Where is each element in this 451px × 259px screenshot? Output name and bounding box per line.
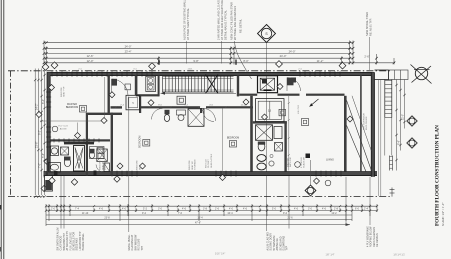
washer dryer closet left of stair: [146, 76, 156, 91]
svg-text:RE: DETAIL: RE: DETAIL: [239, 19, 243, 33]
living room door dark mark: [306, 154, 311, 159]
top dimension section marks: [158, 60, 160, 65]
bedroom3 closet door arc: [203, 111, 214, 122]
svg-text:2 HR RATED WALL AND CLG ASSY: 2 HR RATED WALL AND CLG ASSY: [217, 0, 221, 40]
door arc bedroom2 entry: [112, 79, 129, 96]
property line left vertical (dash-dot): [10, 71, 12, 197]
chimney projection bottom-left: [45, 176, 53, 192]
bath top dark band: [64, 142, 94, 145]
corridor dim ticks: [115, 106, 117, 108]
living room pointer arrow: [310, 99, 319, 107]
left grid diamond top: [42, 64, 49, 71]
svg-text:47'-8": 47'-8": [195, 222, 201, 225]
laundry room outline: [256, 99, 285, 122]
bottom dimension vertical ticks: [45, 204, 47, 226]
bedroom1 circle tag: [52, 126, 58, 132]
svg-text:STORAGE: STORAGE: [194, 159, 197, 170]
interior wall left bath (vertical): [86, 113, 88, 176]
svg-text:LIVING: LIVING: [326, 159, 334, 162]
leader to note3b: [288, 176, 290, 229]
svg-text:W/ STEEL RAIL RE DETAILS: W/ STEEL RAIL RE DETAILS: [233, 6, 237, 40]
left dimension lines: [34, 69, 36, 196]
svg-text:RE DETAILS: RE DETAILS: [376, 233, 379, 247]
exterior wall left: [47, 72, 50, 175]
ladder extension verticals: [384, 118, 386, 156]
bedroom1 south wall mullion ticks: [53, 138, 55, 142]
hall bath sink: [177, 110, 186, 115]
mid bath shower: [256, 125, 273, 141]
right strip inner wall: [360, 76, 362, 172]
sheet border left double line: [0, 0, 2, 259]
svg-text:2'-0: 2'-0: [51, 208, 56, 211]
bottom dimension lines: [46, 205, 377, 207]
right strip diagonal stair lines: [347, 101, 372, 171]
bedroom1 diamond mid: [75, 133, 81, 139]
svg-text:WINDOW: WINDOW: [137, 159, 139, 170]
hall bath upper wall band: [111, 106, 123, 108]
svg-text:10'-4: 10'-4: [227, 212, 233, 215]
svg-text:7'-4: 7'-4: [75, 208, 80, 211]
svg-text:NEW CONC FILLED PAN STAIR: NEW CONC FILLED PAN STAIR: [230, 2, 234, 40]
stair break X: [206, 75, 219, 94]
leader note E: [369, 37, 371, 70]
grid bubble bottom (diamond circle): [305, 185, 316, 196]
interior wall bedroom3 right / bath left (vertical): [250, 96, 253, 172]
svg-text:9'-2": 9'-2": [39, 130, 42, 135]
interior wall WIC right (vertical): [139, 95, 141, 113]
svg-text:5'-8": 5'-8": [42, 153, 45, 158]
property line bottom (dash-dot): [8, 196, 392, 198]
svg-text:9'-8": 9'-8": [193, 59, 198, 63]
laundry divider: [269, 101, 271, 119]
stair direction line with arrow: [161, 92, 237, 94]
tub with V: [74, 146, 85, 172]
interior leader x222: [222, 108, 224, 174]
north arrow (crossed circle): [415, 67, 427, 79]
leader x346 below building: [345, 177, 347, 225]
svg-text:GLASS DR: GLASS DR: [303, 157, 306, 168]
hall bath toilet: [165, 110, 170, 115]
leader note A: [186, 41, 188, 64]
tag diamond below chimney: [49, 177, 55, 183]
svg-text:BEDROOM: BEDROOM: [227, 137, 239, 140]
mid bath counter: [274, 127, 282, 139]
bedroom2 tag box: [143, 140, 150, 147]
interior wall bedroom1 right (vertical): [108, 76, 110, 114]
svg-text:5'-0: 5'-0: [272, 208, 277, 211]
living room right wall (vertical): [344, 96, 347, 172]
small box with X: [61, 147, 69, 155]
diamond near WIC: [109, 92, 115, 98]
svg-text:4'-6: 4'-6: [294, 208, 299, 211]
leader note C curve: [235, 41, 252, 79]
top wall window mullion ticks: [51, 71, 53, 76]
svg-text:BEDROOM: BEDROOM: [139, 136, 142, 148]
stair run hatch: [163, 75, 234, 77]
svg-text:4'-6: 4'-6: [322, 208, 327, 211]
leader bottom bubble: [310, 160, 312, 185]
top dimension intermediate ticks: [158, 57, 160, 65]
deck edge lines right of exterior wall: [377, 80, 379, 196]
svg-text:HARDIE PANEL: HARDIE PANEL: [82, 232, 85, 250]
bedroom1 south wall with glazing: [50, 139, 110, 141]
grid bubble S1 (diamond with circle): [258, 25, 276, 43]
interior wall bath left top area (vertical): [135, 76, 138, 96]
svg-text:7'-6: 7'-6: [178, 212, 183, 215]
svg-text:5'-2: 5'-2: [143, 208, 148, 211]
top-right vestibule walls: [375, 69, 389, 71]
svg-text:4'-0: 4'-0: [229, 208, 234, 211]
svg-text:ENCLOSURE: ENCLOSURE: [366, 116, 368, 130]
toilet bottom-left: [64, 158, 70, 166]
left bath door arc: [96, 165, 106, 174]
svg-text:23'-4": 23'-4": [125, 49, 132, 53]
hall bath door arc left: [152, 108, 163, 119]
tag diamond below wall x117: [114, 176, 120, 182]
svg-text:15'-4: 15'-4: [197, 217, 203, 220]
svg-text:SHELF+POLE: SHELF+POLE: [211, 153, 213, 168]
svg-text:4'-0: 4'-0: [122, 208, 127, 211]
bedroom1 window leader vertical: [104, 77, 106, 118]
leader to note4: [369, 177, 371, 225]
svg-text:21'-6: 21'-6: [287, 217, 293, 220]
svg-text:11'-0": 11'-0": [401, 114, 404, 120]
svg-text:6'-4": 6'-4": [42, 99, 45, 104]
svg-text:9'-2: 9'-2: [142, 212, 147, 215]
svg-text:8'-0": 8'-0": [243, 59, 248, 63]
exterior wall right: [371, 72, 374, 177]
svg-text:RE: A5.01 TYP.: RE: A5.01 TYP.: [369, 18, 373, 36]
svg-text:WINDOW: WINDOW: [100, 159, 102, 170]
WC fixtures top middle: [112, 79, 118, 86]
corridor door arc right: [287, 78, 301, 92]
right strip grid diamond: [347, 116, 353, 122]
top grid diamonds: [51, 62, 58, 69]
wall bedroom3 top: [200, 108, 202, 113]
svg-text:SEAT TYP.: SEAT TYP.: [63, 86, 66, 97]
grid bubble S1 leader (long vertical): [266, 43, 268, 232]
elevator shaft: [258, 76, 278, 93]
svg-text:2'-6": 2'-6": [364, 55, 369, 59]
exterior stair ladder right edge: [384, 80, 386, 118]
hall bath shower: [188, 109, 204, 127]
closet shelves boxes: [90, 147, 105, 159]
svg-text:TYP: TYP: [286, 245, 289, 250]
WIC closet box: [126, 95, 140, 110]
exterior wall bottom: [44, 172, 378, 176]
svg-text:12'-0": 12'-0": [87, 59, 94, 63]
svg-text:3'-0: 3'-0: [308, 208, 313, 211]
svg-text:4'-6: 4'-6: [243, 208, 248, 211]
bedroom1 wall tag diamond: [49, 85, 55, 91]
svg-text:SEAT W/: SEAT W/: [191, 161, 194, 170]
exterior wall top: [47, 72, 374, 75]
svg-text:2'-4: 2'-4: [364, 208, 369, 211]
kitchen tag box: [279, 109, 286, 116]
svg-text:6'-0: 6'-0: [355, 208, 360, 211]
corridor top wall segments right of stair: [239, 94, 257, 96]
svg-text:ALIGN: ALIGN: [60, 127, 67, 130]
svg-text:9'-0" CLG: 9'-0" CLG: [58, 126, 68, 128]
bedroom1 tag box: [80, 106, 87, 113]
leader to note1: [60, 176, 62, 229]
svg-text:12'-6": 12'-6": [87, 54, 94, 58]
middle bath top wall: [253, 121, 287, 123]
box tag right corridor: [302, 119, 309, 126]
stair enclosure right wall: [237, 76, 239, 97]
svg-text:21'-6": 21'-6": [35, 142, 38, 148]
mid bath toilet: [258, 142, 265, 151]
REF box: [104, 163, 110, 172]
svg-text:24'-0": 24'-0": [280, 54, 287, 58]
svg-text:DETAIL 4/A5.01 TYPICAL: DETAIL 4/A5.01 TYPICAL: [224, 10, 228, 40]
leader to note2: [128, 97, 130, 233]
living room tag diamonds: [314, 178, 320, 184]
fixture right of elevator: [291, 78, 297, 83]
bedroom1 diamond leader: [77, 123, 79, 133]
right side lower tick column: [389, 156, 391, 171]
stair label box: [177, 96, 186, 104]
svg-text:ALIGN FACE OF EXISTING WALL: ALIGN FACE OF EXISTING WALL: [183, 0, 187, 40]
svg-text:11'-2": 11'-2": [317, 59, 324, 63]
sheet edge marks bottom left: [0, 205, 2, 210]
door dark marks: [54, 171, 58, 176]
interior dim line right of bath: [288, 96, 290, 171]
svg-text:WINDOW: WINDOW: [189, 159, 191, 170]
svg-text:AT STAIR AND ELEV SHAFTS RE: AT STAIR AND ELEV SHAFTS RE: [220, 0, 224, 40]
svg-text:2'-8: 2'-8: [334, 208, 339, 211]
top dimension right end ticks: [349, 41, 351, 65]
svg-text:BATH RM: BATH RM: [289, 157, 292, 167]
sink bottom-left: [49, 163, 61, 173]
svg-text:TYP: TYP: [141, 245, 144, 250]
living room circle tags: [295, 162, 301, 168]
bedroom1 mid leader line: [40, 120, 108, 122]
left bath toilet: [89, 152, 94, 159]
svg-text:2'-6: 2'-6: [215, 208, 220, 211]
mid bath sinks: [257, 155, 266, 162]
interior wall below stair / corridor top: [136, 94, 159, 96]
svg-text:CLOSET: CLOSET: [208, 159, 210, 168]
hall door arc: [203, 108, 216, 121]
leader note B: [221, 41, 223, 64]
svg-text:FOURTH FLOOR CONSTRUCTION PLAN: FOURTH FLOOR CONSTRUCTION PLAN: [435, 125, 441, 226]
tag diamond below wall x74: [71, 179, 77, 185]
svg-text:STORAGE: STORAGE: [104, 159, 107, 170]
interior wall bath/bed2 separator (vertical): [111, 113, 113, 176]
stair enclosure left wall: [158, 76, 160, 97]
svg-text:11'-10: 11'-10: [82, 212, 89, 215]
right grid bubble K1: [407, 116, 417, 126]
right grid bubble K2: [407, 138, 417, 148]
svg-text:7'-0": 7'-0": [39, 163, 42, 168]
svg-text:SCALE: 1/4" = 1'-0": SCALE: 1/4" = 1'-0": [442, 203, 445, 226]
diamond right of WIC: [148, 100, 154, 106]
corridor bottom wall: [141, 106, 200, 108]
svg-text:1/8" 1/4": 1/8" 1/4": [325, 254, 334, 257]
svg-text:BEDROOM: BEDROOM: [66, 106, 78, 109]
svg-text:AT STAIR SHAFT TYPICAL: AT STAIR SHAFT TYPICAL: [186, 8, 190, 40]
svg-text:1/8 1/4 1/2: 1/8 1/4 1/2: [393, 254, 405, 257]
left bath shower box: [97, 149, 108, 162]
middle bath right wall / living room left (vertical): [284, 121, 286, 171]
svg-text:4'-6: 4'-6: [99, 208, 104, 211]
right dimension lines: [396, 80, 398, 171]
top dimension left end ticks: [43, 41, 45, 65]
top dimension lines: [44, 42, 353, 44]
bedroom2 tag diamonds: [117, 163, 123, 169]
left wall tag diamonds: [36, 112, 42, 118]
svg-text:2401: 2401: [188, 69, 194, 71]
mid bath X box small: [275, 143, 283, 152]
svg-text:24'-0": 24'-0": [289, 49, 296, 53]
svg-text:9'-2: 9'-2: [283, 212, 288, 215]
bedroom3 tag box: [230, 141, 237, 148]
svg-text:24'-0": 24'-0": [125, 44, 132, 48]
svg-text:NEW SPIRAL STAIR: NEW SPIRAL STAIR: [365, 12, 369, 36]
svg-text:MASTER: MASTER: [287, 157, 290, 167]
svg-text:23'-8: 23'-8: [104, 217, 110, 220]
svg-text:14'-2": 14'-2": [35, 104, 38, 110]
left wall window mullion ticks: [46, 91, 51, 93]
washer box with circle: [51, 146, 59, 156]
svg-text:12'-2: 12'-2: [331, 212, 337, 215]
living room fireplace: [287, 78, 294, 86]
svg-text:8'-6": 8'-6": [397, 140, 400, 145]
left dimension ticks: [34, 79, 36, 81]
property line top (dash-dot): [8, 70, 392, 72]
interior wall bedroom2 top (horizontal): [88, 113, 122, 115]
right side marks near bottom: [390, 189, 395, 191]
svg-text:LIN. CLO: LIN. CLO: [298, 105, 300, 114]
mid bath circle tags: [269, 161, 274, 166]
closet tag box: [125, 84, 131, 90]
svg-text:3'-8: 3'-8: [203, 208, 208, 211]
svg-text:3'-0: 3'-0: [158, 208, 163, 211]
svg-text:3/16" 1/4": 3/16" 1/4": [215, 253, 225, 256]
svg-text:SEAT: SEAT: [138, 164, 141, 170]
svg-text:4'-6: 4'-6: [182, 208, 187, 211]
bottom wall window mullion ticks: [111, 171, 113, 177]
svg-text:12'-0: 12'-0: [241, 104, 247, 106]
svg-text:SEAT W/: SEAT W/: [101, 161, 104, 170]
elevator car: [260, 78, 274, 90]
